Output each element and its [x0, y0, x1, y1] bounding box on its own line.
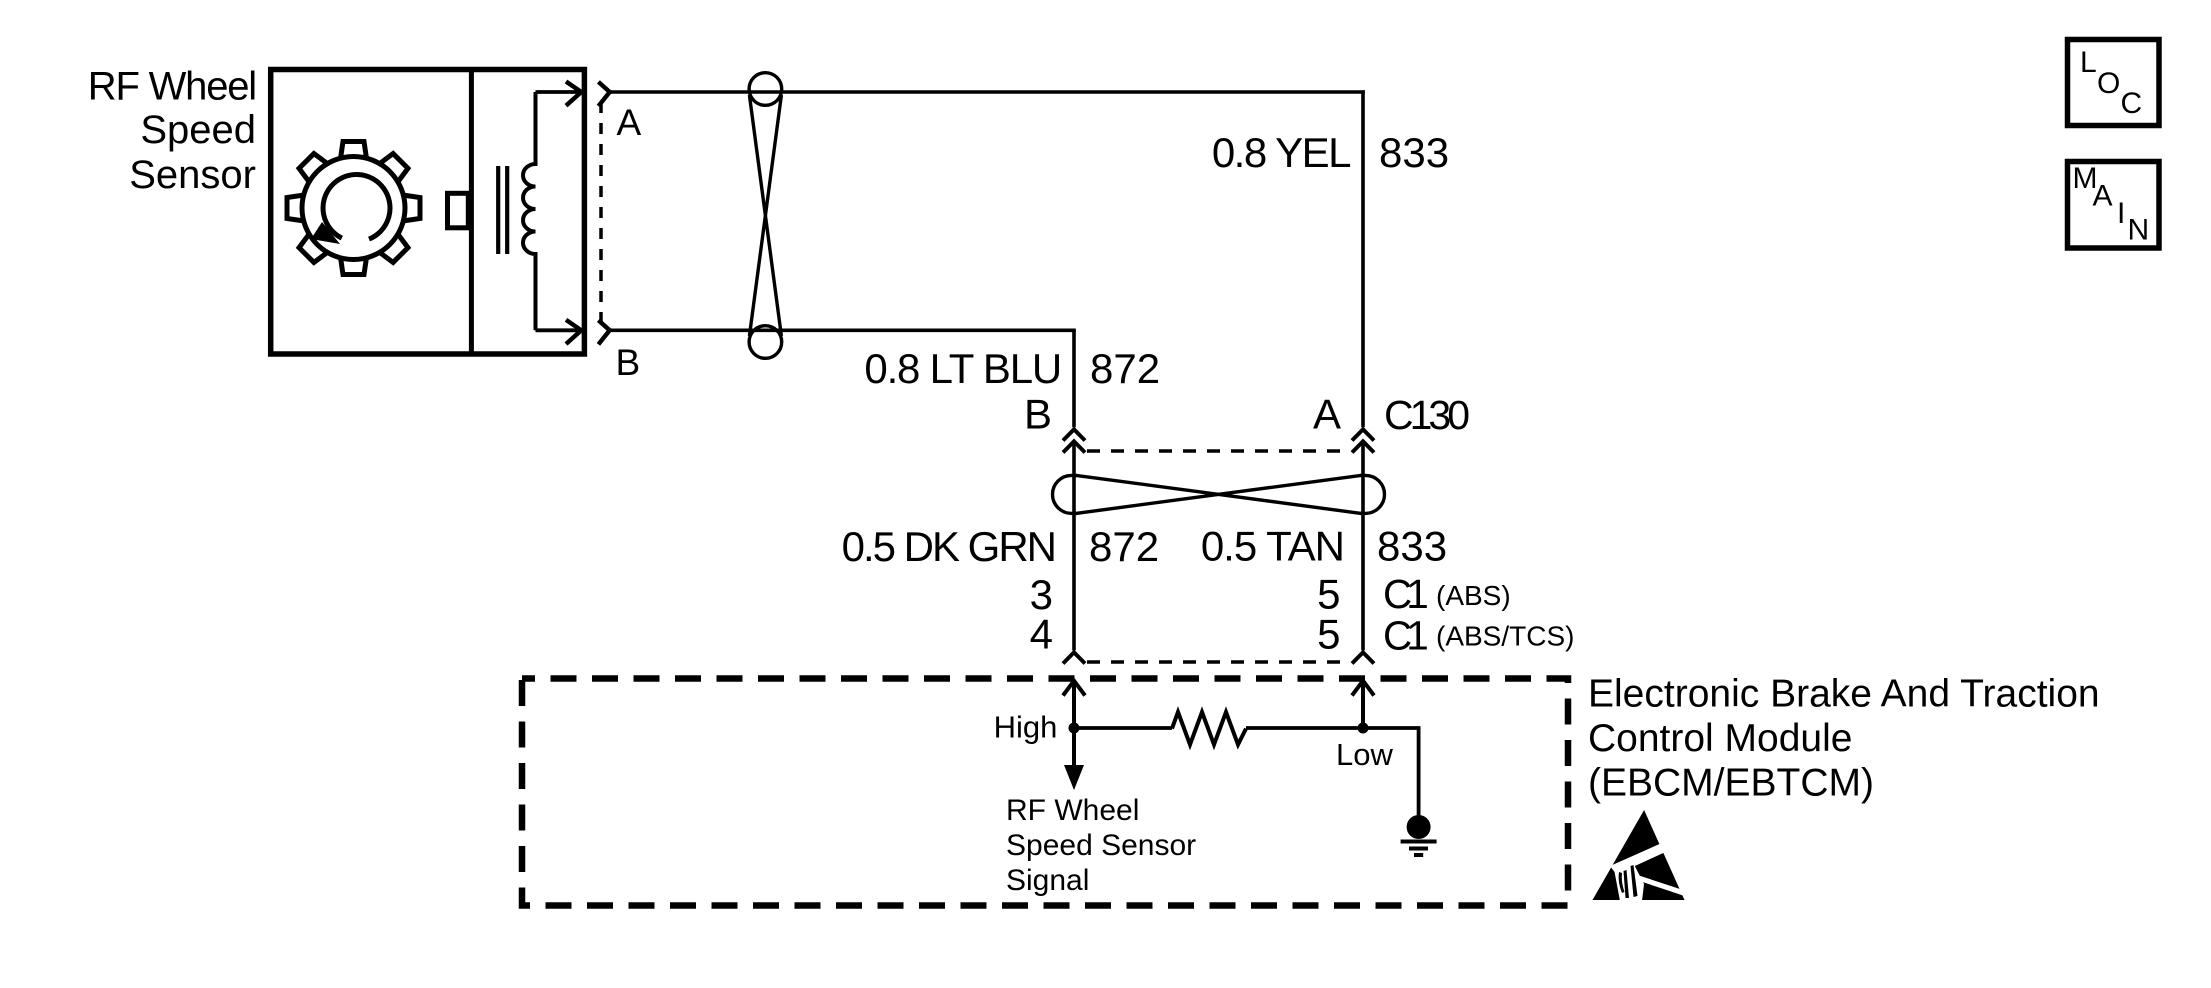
svg-text:833: 833 — [1377, 523, 1447, 570]
LOC box — [2068, 40, 2160, 126]
svg-text:C130: C130 — [1384, 392, 1469, 438]
svg-text:Electronic Brake And Traction: Electronic Brake And Traction — [1588, 673, 2100, 716]
svg-text:Signal: Signal — [1006, 864, 1089, 897]
wire A vertical (YEL 833) — [1361, 90, 1365, 427]
svg-text:I: I — [2117, 197, 2125, 230]
coil top lead wire — [536, 90, 581, 94]
svg-text:RF Wheel: RF Wheel — [1006, 794, 1139, 827]
sensor internal divider — [469, 70, 474, 355]
connector dashed line A-B — [599, 102, 603, 322]
EBCM module title — [1588, 673, 2100, 805]
wire A horizontal — [610, 90, 1365, 94]
ground symbol — [1401, 815, 1437, 855]
svg-text:C1: C1 — [1383, 571, 1427, 617]
svg-text:B: B — [616, 342, 641, 383]
sensor coil winding — [523, 92, 536, 330]
svg-text:Speed Sensor: Speed Sensor — [1006, 829, 1196, 862]
svg-text:C: C — [2121, 87, 2143, 120]
coil top arrowhead — [566, 82, 581, 106]
svg-text:High: High — [994, 710, 1058, 745]
EBCM entry arrow right — [1352, 681, 1374, 728]
svg-text:N: N — [2128, 214, 2150, 247]
sensor core lines — [496, 166, 500, 254]
pickup tab — [448, 193, 469, 228]
signal down arrow — [1072, 728, 1076, 766]
MAIN letters — [2073, 162, 2150, 247]
coil bottom arrowhead — [566, 320, 581, 344]
svg-text:Speed: Speed — [140, 108, 256, 152]
ESD warning symbol — [1593, 810, 1688, 901]
wire B vertical (LT BLU 872) — [1072, 330, 1076, 427]
svg-text:4: 4 — [1030, 611, 1053, 658]
svg-text:C1: C1 — [1383, 613, 1427, 659]
svg-text:A: A — [2093, 180, 2113, 213]
bottom connector dashed line — [1087, 660, 1351, 663]
rotation arrow arc — [323, 175, 390, 240]
svg-text:0.8 YEL: 0.8 YEL — [1212, 129, 1350, 176]
svg-text:Control Module: Control Module — [1588, 717, 1852, 760]
svg-text:(EBCM/EBTCM): (EBCM/EBTCM) — [1588, 762, 1874, 805]
RF Wheel Speed Sensor label — [88, 65, 256, 198]
bottom connector chevron left — [1063, 652, 1085, 663]
resistor — [1172, 712, 1246, 745]
svg-text:B: B — [1024, 391, 1052, 438]
svg-text:A: A — [1313, 391, 1341, 438]
EBCM dashed box — [522, 679, 1568, 906]
toothed wheel (tone ring) — [287, 142, 420, 275]
svg-text:0.5 TAN: 0.5 TAN — [1201, 523, 1344, 570]
internal wire resistor to ground corner — [1246, 728, 1419, 816]
coil bottom lead wire — [536, 328, 581, 332]
svg-text:L: L — [2080, 46, 2097, 79]
svg-text:833: 833 — [1379, 129, 1449, 176]
svg-text:872: 872 — [1089, 523, 1159, 570]
C130 dashed line — [1087, 449, 1351, 452]
svg-text:5: 5 — [1317, 611, 1340, 658]
EBCM entry arrow left — [1063, 681, 1085, 728]
svg-text:A: A — [617, 102, 642, 143]
svg-text:872: 872 — [1090, 345, 1160, 392]
wheel speed sensor box — [271, 70, 585, 355]
terminal chevron B — [598, 320, 609, 344]
svg-text:0.5 DK GRN: 0.5 DK GRN — [842, 523, 1055, 570]
terminal chevron A — [598, 82, 609, 106]
High junction dot — [1069, 723, 1080, 734]
svg-text:RF Wheel: RF Wheel — [88, 65, 256, 109]
twisted pair symbol lower (horizontal bowtie) — [1053, 475, 1385, 513]
Low junction dot — [1358, 723, 1369, 734]
connector C130 chevrons right wire — [1352, 429, 1374, 452]
internal wire High to resistor — [1074, 726, 1172, 730]
twisted pair symbol upper (vertical bowtie) — [749, 73, 782, 359]
bottom connector chevron right — [1352, 652, 1374, 663]
svg-text:(ABS): (ABS) — [1436, 580, 1511, 611]
svg-text:Sensor: Sensor — [129, 153, 256, 197]
wire 833 vertical (TAN) — [1361, 441, 1365, 650]
MAIN box — [2068, 162, 2160, 249]
LOC letters — [2080, 46, 2142, 120]
svg-text:0.8 LT BLU: 0.8 LT BLU — [864, 345, 1061, 392]
wire B horizontal — [610, 328, 1076, 332]
connector C130 chevrons left wire — [1063, 429, 1085, 452]
svg-text:(ABS/TCS): (ABS/TCS) — [1436, 621, 1574, 652]
wire 872 vertical (DK GRN) — [1072, 441, 1076, 650]
rotation arrowhead — [311, 222, 340, 244]
svg-text:O: O — [2097, 67, 2120, 100]
svg-text:Low: Low — [1336, 737, 1393, 772]
label RF Wheel Speed Sensor Signal — [1006, 794, 1196, 897]
